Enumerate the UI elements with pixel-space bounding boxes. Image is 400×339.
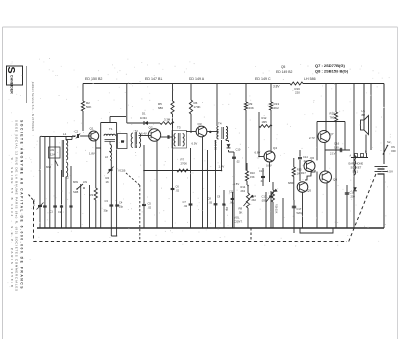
svg-text:Q4: Q4 (273, 146, 277, 150)
svg-text:Edition Service S.A. - N 2475/: Edition Service S.A. - N 2475/01/2 (31, 82, 35, 132)
svg-text:Q8: Q8 (333, 178, 337, 182)
svg-text:760: 760 (330, 116, 335, 120)
svg-text:3.3M: 3.3M (164, 118, 171, 122)
svg-text:8R: 8R (362, 113, 366, 117)
svg-text:MW: MW (73, 180, 78, 184)
svg-text:2K2: 2K2 (241, 189, 246, 193)
svg-text:1N34: 1N34 (140, 116, 147, 120)
svg-text:C14: C14 (303, 155, 308, 159)
svg-text:6.5V: 6.5V (192, 142, 198, 146)
svg-text:C. SEINE 55 B 1234 - S.E.P.: C. SEINE 55 B 1234 - S.E.P. PARIS 1958/B (10, 158, 14, 289)
svg-text:OFF: OFF (391, 150, 396, 153)
svg-text:6.8V: 6.8V (255, 151, 261, 155)
svg-text:R3: R3 (90, 193, 94, 197)
svg-text:SIEGE SOCIAL 12 RUE DE LA BAUM: SIEGE SOCIAL 12 RUE DE LA BAUME PARIS (8… (15, 120, 19, 292)
svg-text:6.4V: 6.4V (141, 132, 147, 136)
svg-text:T4: T4 (218, 122, 222, 126)
svg-text:C4: C4 (119, 201, 123, 205)
svg-text:ED 149 B2: ED 149 B2 (276, 70, 293, 74)
svg-text:20p: 20p (119, 205, 124, 209)
svg-text:2K2: 2K2 (252, 199, 257, 202)
svg-text:CONT.: CONT. (234, 220, 243, 224)
svg-text:.02: .02 (176, 189, 180, 193)
svg-text:T1: T1 (109, 127, 113, 131)
svg-text:520p: 520p (297, 211, 303, 215)
svg-text:.02: .02 (148, 206, 152, 210)
svg-text:R10: R10 (250, 171, 255, 175)
svg-text:R17: R17 (301, 171, 306, 175)
svg-text:C10: C10 (236, 148, 241, 152)
svg-text:R16 15K: R16 15K (275, 204, 278, 214)
svg-text:LW: LW (50, 148, 54, 152)
svg-text:ED 149 A: ED 149 A (189, 77, 205, 81)
svg-text:220: 220 (295, 91, 300, 95)
svg-text:1K: 1K (106, 180, 110, 184)
svg-text:C8: C8 (208, 197, 212, 201)
svg-text:1M5: 1M5 (262, 120, 268, 124)
svg-text:0.8V: 0.8V (266, 164, 272, 168)
svg-text:L2: L2 (66, 176, 70, 180)
svg-text:C13: C13 (262, 195, 267, 199)
svg-text:200: 200 (351, 195, 356, 199)
svg-text:Q7 : 2SD77B(G): Q7 : 2SD77B(G) (315, 63, 345, 68)
svg-text:Q3: Q3 (198, 122, 202, 126)
svg-text:LH 586: LH 586 (304, 77, 316, 81)
svg-text:C2: C2 (75, 130, 79, 134)
svg-text:D2 OA70: D2 OA70 (215, 139, 218, 150)
svg-text:C12: C12 (259, 169, 264, 173)
svg-text:C17: C17 (297, 207, 302, 211)
svg-text:ON: ON (391, 146, 395, 149)
svg-text:Q1: Q1 (90, 127, 94, 131)
svg-text:3.8V: 3.8V (273, 85, 280, 89)
svg-text:C5: C5 (148, 202, 152, 206)
svg-text:R12: R12 (262, 116, 267, 120)
svg-text:T3: T3 (177, 126, 181, 130)
svg-text:680R: 680R (288, 181, 294, 185)
svg-text:L1: L1 (63, 132, 67, 136)
svg-text:15K: 15K (250, 175, 255, 179)
svg-text:4.5V: 4.5V (387, 170, 393, 174)
svg-text:R14: R14 (241, 185, 246, 189)
svg-text:.002: .002 (230, 201, 236, 205)
svg-text:20p: 20p (225, 207, 228, 212)
svg-text:C1: C1 (50, 210, 54, 214)
svg-text:.02: .02 (184, 204, 188, 208)
svg-text:MW: MW (46, 165, 51, 169)
svg-text:30p: 30p (104, 209, 109, 213)
svg-text:VC1B: VC1B (118, 169, 125, 173)
svg-text:C11: C11 (229, 190, 234, 194)
svg-text:S1B: S1B (73, 190, 78, 194)
svg-text:S: S (5, 67, 17, 74)
svg-text:2K2: 2K2 (274, 106, 280, 110)
svg-text:D: D (365, 151, 367, 154)
svg-text:.05: .05 (209, 201, 213, 205)
svg-text:SOCIETE ANONYME AU CAPITAL DE: SOCIETE ANONYME AU CAPITAL DE 6.000.000 … (20, 120, 24, 290)
svg-text:C3: C3 (105, 199, 109, 203)
svg-text:.005: .005 (261, 199, 267, 203)
svg-text:2.7V: 2.7V (309, 136, 315, 140)
svg-text:R15: R15 (297, 168, 302, 172)
svg-text:170K: 170K (194, 105, 201, 109)
svg-text:S2: S2 (387, 140, 391, 144)
svg-text:ED 149 C: ED 149 C (255, 77, 271, 81)
svg-text:L6: L6 (105, 155, 108, 159)
svg-text:12A: 12A (50, 153, 55, 157)
svg-text:.02: .02 (236, 160, 240, 164)
svg-text:Q8 : 2SB156 B(G): Q8 : 2SB156 B(G) (315, 69, 349, 74)
svg-text:270K: 270K (181, 162, 188, 166)
svg-text:Q5: Q5 (281, 65, 285, 69)
svg-text:1.8V: 1.8V (89, 152, 95, 156)
svg-text:Q6: Q6 (310, 156, 314, 160)
svg-text:R11: R11 (252, 195, 257, 198)
svg-text:CHNEIDER: CHNEIDER (10, 75, 14, 94)
svg-text:-4.5V: -4.5V (233, 182, 240, 186)
svg-text:C7: C7 (183, 200, 187, 204)
svg-text:23K: 23K (249, 106, 254, 110)
svg-text:2.1V: 2.1V (330, 152, 336, 156)
svg-text:50K: 50K (86, 105, 91, 109)
svg-text:ED 150 B2: ED 150 B2 (85, 77, 102, 81)
svg-text:5K: 5K (239, 211, 243, 215)
svg-text:.04: .04 (260, 179, 264, 183)
svg-text:C6: C6 (176, 185, 180, 189)
svg-text:680: 680 (158, 106, 163, 110)
svg-text:ED 147 B1: ED 147 B1 (145, 77, 162, 81)
